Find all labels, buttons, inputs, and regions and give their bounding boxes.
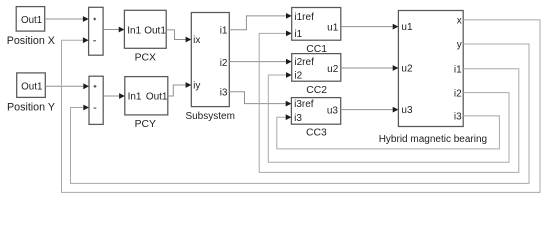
current controller block CC2 xyxy=(292,54,341,82)
label CC1 xyxy=(306,44,327,55)
sum block S2 (y error) xyxy=(89,76,103,124)
svg-text:y: y xyxy=(457,40,462,51)
svg-text:i1: i1 xyxy=(454,64,462,75)
svg-text:CC2: CC2 xyxy=(306,85,327,96)
current controller block CC1 xyxy=(292,8,341,41)
svg-text:Hybrid magnetic bearing: Hybrid magnetic bearing xyxy=(379,134,487,145)
label Hybrid magnetic bearing xyxy=(379,134,487,145)
wire: Subsystem i1 to CC1 i1ref xyxy=(229,13,291,30)
svg-text:Subsystem: Subsystem xyxy=(185,111,234,122)
svg-text:u2: u2 xyxy=(327,64,339,75)
feedback wire: bearing i1 output to CC1 i1 input xyxy=(259,31,519,173)
svg-text:Out1: Out1 xyxy=(21,81,42,92)
block Subsystem xyxy=(191,13,229,107)
label PCX xyxy=(135,53,156,64)
wire: Out1 Position X to S1 plus input xyxy=(45,16,89,22)
svg-text:iy: iy xyxy=(193,81,200,92)
svg-text:i3: i3 xyxy=(454,112,462,123)
svg-text:ix: ix xyxy=(193,35,200,46)
feedback wire: bearing y output to S2 minus input xyxy=(71,44,530,183)
wire: PCY Out1 to Subsystem iy xyxy=(168,82,192,96)
svg-text:PCX: PCX xyxy=(135,53,156,64)
label Position X xyxy=(7,35,55,47)
wire: S2 output to PCY In1 xyxy=(103,93,125,99)
plant block Hybrid magnetic bearing xyxy=(398,11,463,127)
label Subsystem xyxy=(185,111,234,122)
svg-text:u3: u3 xyxy=(401,105,413,116)
label Position Y xyxy=(7,101,55,113)
svg-text:u2: u2 xyxy=(401,64,413,75)
label PCY xyxy=(135,119,156,130)
svg-text:u3: u3 xyxy=(327,106,339,117)
wire: CC3 u3 to bearing u3 xyxy=(341,107,399,113)
svg-text:i1: i1 xyxy=(220,25,228,36)
svg-text:i2: i2 xyxy=(294,71,302,82)
outport block Out1 (Position Y) xyxy=(17,73,46,98)
svg-text:Out1: Out1 xyxy=(146,92,168,103)
feedback wire: bearing i3 output to CC3 i3 input xyxy=(277,114,500,149)
wire: CC1 u1 to bearing u1 xyxy=(341,24,399,30)
controller block PCY xyxy=(125,77,168,115)
svg-text:i3: i3 xyxy=(220,87,228,98)
wire: Subsystem i3 to CC3 i3ref xyxy=(229,92,291,107)
wire: Subsystem i2 to CC2 i2ref xyxy=(229,59,291,65)
svg-text:CC3: CC3 xyxy=(306,127,327,138)
svg-text:In1: In1 xyxy=(128,92,142,103)
svg-text:Out1: Out1 xyxy=(144,26,166,37)
svg-text:i3: i3 xyxy=(294,113,302,124)
wire: Out1 Position Y to S2 plus input xyxy=(45,83,89,89)
label CC3 xyxy=(306,127,327,138)
current controller block CC3 xyxy=(291,98,340,125)
svg-text:i1: i1 xyxy=(294,29,302,40)
sum block S1 (x error) xyxy=(89,7,104,55)
wire: PCX Out1 to Subsystem ix xyxy=(166,30,191,43)
wire: CC2 u2 to bearing u2 xyxy=(341,65,399,71)
svg-text:i3ref: i3ref xyxy=(294,99,314,110)
controller block PCX xyxy=(124,10,166,48)
label CC2 xyxy=(306,85,327,96)
svg-text:PCY: PCY xyxy=(135,119,156,130)
svg-text:i2: i2 xyxy=(220,58,228,69)
wire: S1 output to PCX In1 xyxy=(103,27,124,33)
svg-text:Position X: Position X xyxy=(7,35,55,47)
svg-text:i2ref: i2ref xyxy=(294,57,314,68)
svg-text:In1: In1 xyxy=(127,26,141,37)
svg-text:i2: i2 xyxy=(454,88,462,99)
svg-text:u1: u1 xyxy=(327,23,339,34)
feedback wire: bearing x output to S1 minus input xyxy=(62,20,541,193)
feedback wire: bearing i2 output to CC2 i2 input xyxy=(268,72,509,162)
svg-text:Position Y: Position Y xyxy=(7,101,55,113)
svg-text:i1ref: i1ref xyxy=(294,12,314,23)
svg-text:Out1: Out1 xyxy=(21,15,42,26)
svg-text:u1: u1 xyxy=(401,22,413,33)
svg-text:x: x xyxy=(457,16,462,27)
outport block Out1 (Position X) xyxy=(16,7,45,32)
